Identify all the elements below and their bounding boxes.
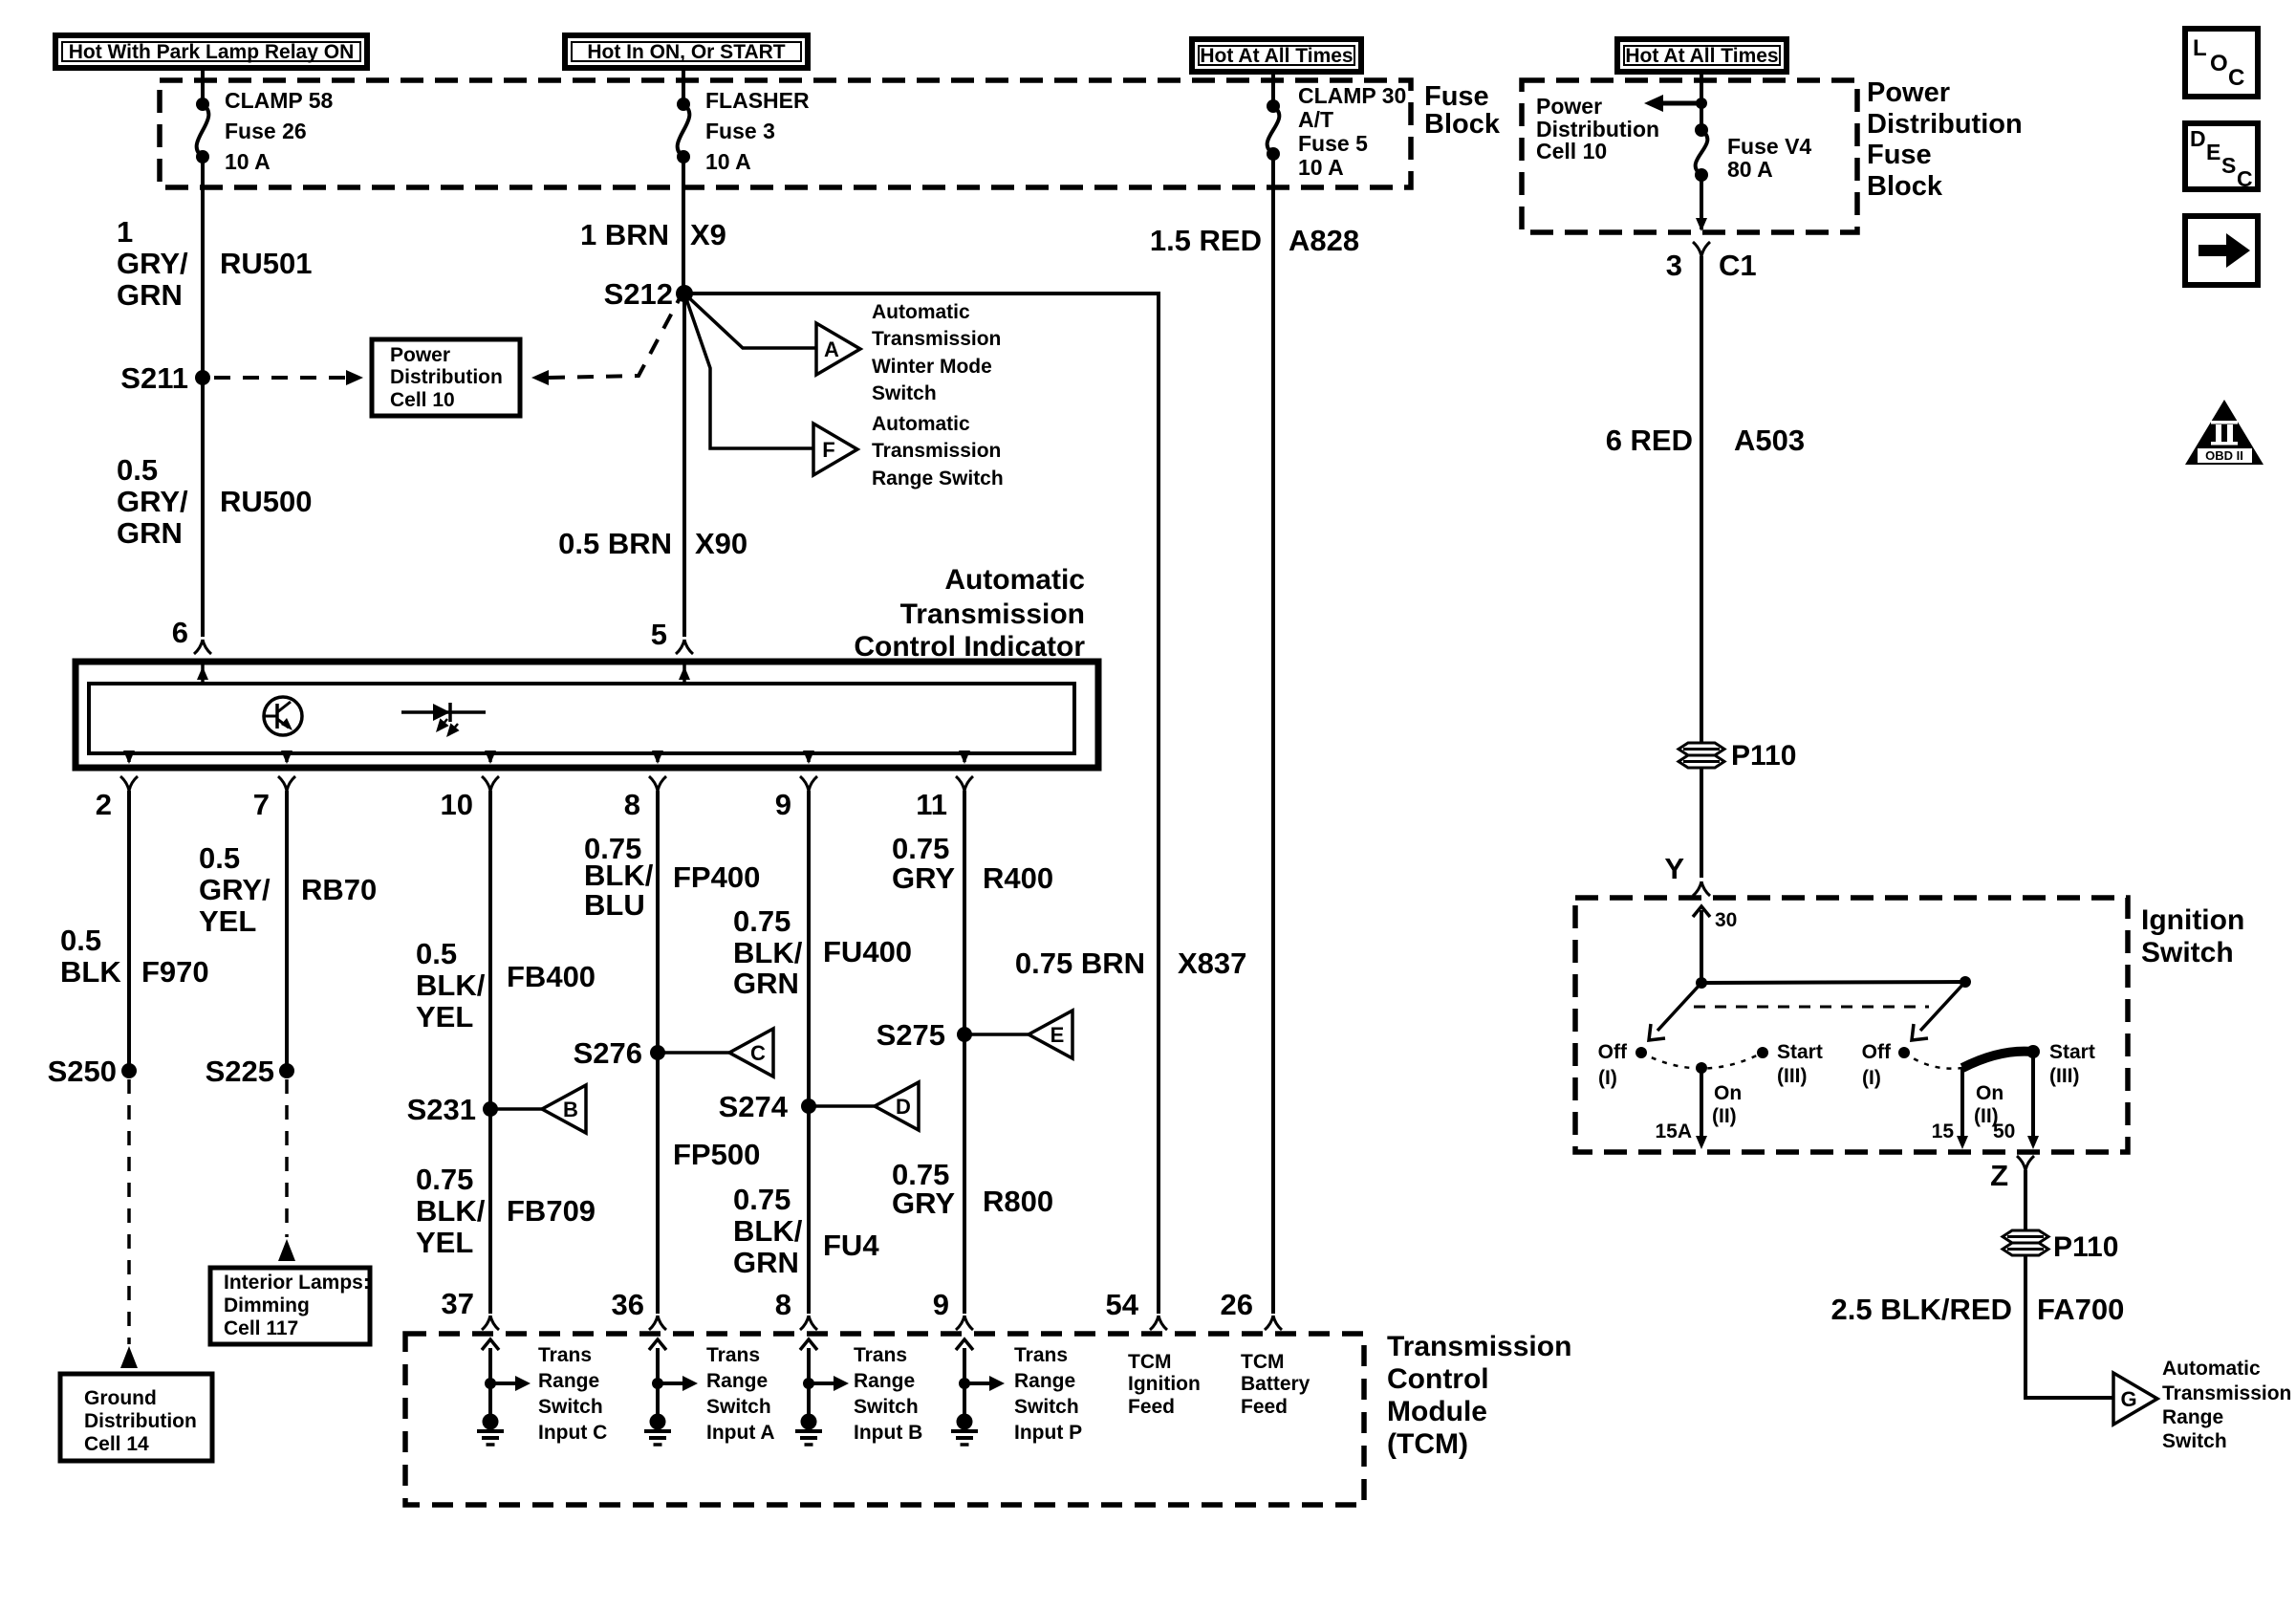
svg-text:(II): (II) [1712,1105,1737,1127]
wire: header into power dist block [1696,72,1707,130]
wire: fuse V4 down to C1 (arrow) [1696,175,1707,231]
wire label 0.5 BLK/YEL FB400 [416,937,596,1033]
pin 6 [172,616,211,654]
svg-text:Range: Range [854,1370,915,1392]
svg-text:Dimming: Dimming [224,1295,310,1316]
svg-text:Switch: Switch [1014,1396,1079,1418]
svg-text:GRY/: GRY/ [199,873,271,906]
fuse 3 (FLASHER, 10 A) [677,98,690,163]
svg-text:BLK/: BLK/ [733,936,803,969]
ground symbol (Input P) [951,1414,978,1446]
svg-text:FU400: FU400 [823,935,912,968]
triangle B [542,1085,586,1133]
TCM pin 9 [933,1288,973,1330]
svg-text:CLAMP 30: CLAMP 30 [1298,83,1406,108]
svg-text:15: 15 [1932,1120,1955,1142]
svg-text:BLK: BLK [60,955,121,989]
svg-text:P110: P110 [1731,740,1796,772]
svg-text:(I): (I) [1598,1067,1617,1089]
header box: Hot At All Times (power dist) [1617,39,1787,72]
svg-text:Trans: Trans [854,1344,907,1366]
svg-text:Fuse: Fuse [1424,81,1489,112]
inline connector P110 (A503) [1679,740,1796,772]
svg-text:X90: X90 [695,527,747,560]
svg-text:On: On [1976,1082,2004,1104]
svg-text:Block: Block [1867,171,1943,202]
pin 5 [651,618,693,654]
terminal 30 entry arrow [1693,906,1737,983]
wire label FP500 [673,1138,760,1171]
svg-text:A828: A828 [1289,224,1359,257]
svg-text:Transmission: Transmission [1387,1331,1571,1362]
svg-text:C: C [750,1041,766,1065]
fuse 26 (CLAMP 58, 10 A) [196,98,209,163]
svg-text:F970: F970 [141,955,209,989]
svg-text:Start: Start [2049,1041,2095,1063]
svg-text:YEL: YEL [416,1226,473,1259]
svg-text:9: 9 [933,1288,949,1321]
LOC icon box [2185,29,2258,97]
wire S276 to triangle C [658,1051,729,1055]
svg-text:10 A: 10 A [705,149,751,174]
svg-text:F: F [822,438,834,462]
svg-text:RU501: RU501 [220,247,313,280]
inline connector P110 (FA700) [2003,1230,2118,1263]
svg-text:Fuse: Fuse [1867,140,1932,170]
svg-text:GRY/: GRY/ [117,485,188,518]
svg-text:Automatic: Automatic [2162,1358,2261,1380]
wire A503 [1700,256,1703,743]
svg-text:FLASHER: FLASHER [705,88,810,113]
svg-text:L: L [2193,35,2207,61]
svg-text:S: S [2221,153,2236,178]
indicator inner box [89,684,1074,753]
fuse 3 value label [705,88,810,174]
wire: header to fuse 3 [682,68,685,104]
svg-text:Fuse V4: Fuse V4 [1727,134,1811,159]
indicator title [854,564,1085,663]
TCM pin 8 [775,1288,817,1330]
connector Y [1664,852,1710,896]
svg-text:0.75: 0.75 [733,1183,791,1216]
svg-text:P110: P110 [2053,1231,2118,1263]
svg-text:80 A: 80 A [1727,157,1773,182]
wire Z to P110 [2024,1170,2027,1230]
svg-text:0.75 BRN: 0.75 BRN [1015,946,1145,980]
wire S275 to triangle E [964,1033,1029,1036]
svg-text:R800: R800 [983,1185,1053,1218]
indicator bottom pin 9 [775,751,817,821]
svg-text:Switch: Switch [706,1396,771,1418]
svg-text:Switch: Switch [538,1396,603,1418]
svg-text:26: 26 [1221,1288,1253,1321]
fuse block (dashed) [160,80,1411,187]
svg-text:Y: Y [1664,852,1684,885]
svg-text:D: D [896,1095,911,1119]
svg-text:10: 10 [441,788,473,821]
svg-text:2: 2 [96,788,112,821]
fuse 26 value label [225,88,334,174]
svg-text:A503: A503 [1734,424,1805,457]
TCM label [1387,1331,1571,1460]
svg-text:Distribution: Distribution [84,1410,197,1432]
svg-text:Battery: Battery [1241,1373,1310,1395]
svg-text:Input A: Input A [706,1422,775,1444]
svg-text:5: 5 [651,618,667,651]
svg-text:0.5: 0.5 [416,937,457,970]
right-arrow icon box [2185,216,2258,285]
svg-text:(III): (III) [1777,1065,1808,1087]
svg-text:Range: Range [706,1370,768,1392]
LED indicator symbol [401,703,486,741]
indicator outer box [76,662,1098,768]
node S212 [604,277,693,311]
DESC icon box [2185,123,2258,191]
svg-text:Z: Z [1990,1159,2008,1192]
svg-text:Hot In ON, Or START: Hot In ON, Or START [587,41,785,63]
svg-text:Cell 10: Cell 10 [1536,139,1607,163]
svg-text:Transmission: Transmission [2162,1382,2291,1404]
power distribution fuse block (dashed) [1522,80,1857,232]
fuse V4 value label [1727,134,1811,182]
svg-text:1 BRN: 1 BRN [580,218,669,251]
svg-text:Interior Lamps:: Interior Lamps: [224,1272,370,1294]
power distribution fuse block label [1867,77,2023,202]
svg-text:Input P: Input P [1014,1422,1082,1444]
svg-text:FP400: FP400 [673,860,760,894]
svg-text:A/T: A/T [1298,107,1333,132]
right wiper arrow [1912,982,1965,1040]
svg-text:O: O [2210,51,2228,76]
TCM trans range switch Input P internals [956,1339,1005,1414]
triangle D [875,1082,919,1130]
wire X9 (fuse 3 to S212) [682,157,685,294]
svg-text:BLK/: BLK/ [416,968,486,1002]
node S231 [407,1093,498,1126]
svg-text:Ignition: Ignition [1128,1373,1201,1395]
switch common bus wire [1696,976,1971,989]
svg-text:Fuse 3: Fuse 3 [705,119,775,143]
right bank wiper blade (On-Start, thick) [1962,1052,2033,1068]
transistor symbol [264,697,302,735]
svg-text:Hot With Park Lamp Relay ON: Hot With Park Lamp Relay ON [69,41,355,63]
wire S212 to triangle F [684,294,813,448]
svg-text:Input B: Input B [854,1422,922,1444]
wire label 0.5 BLK F970 [60,924,209,989]
svg-text:Switch: Switch [872,382,937,404]
svg-text:S275: S275 [877,1018,945,1052]
node S276 [574,1036,665,1070]
svg-text:Distribution: Distribution [390,366,503,388]
svg-text:Range: Range [538,1370,599,1392]
wire label 2.5 BLK/RED FA700 [1831,1293,2125,1326]
TCM ignition feed label [1128,1351,1201,1418]
svg-text:6 RED: 6 RED [1606,424,1693,457]
header box: Hot In ON, Or START [565,35,808,68]
TCM trans range switch Input C internals [482,1339,531,1414]
svg-text:X9: X9 [690,218,726,251]
wire label 0.5 GRY/YEL RB70 [199,841,377,938]
svg-text:GRY: GRY [892,861,955,895]
triangle A (winter mode switch ref) [816,323,860,375]
node S225 [206,1055,294,1088]
indicator bottom pin 8 [624,751,666,821]
svg-text:GRN: GRN [117,278,183,312]
dashed reference arrow S212 to cell 10 box [531,298,680,385]
svg-text:BLK/: BLK/ [416,1194,486,1228]
node S250 [48,1055,137,1088]
svg-text:Hot At All Times: Hot At All Times [1625,45,1778,67]
triangle F (range switch ref) [813,424,857,475]
svg-text:A: A [824,337,839,361]
svg-text:GRY/: GRY/ [117,247,188,280]
svg-text:BLU: BLU [584,888,645,922]
svg-text:Hot At All Times: Hot At All Times [1200,45,1353,67]
wire FU400/FU4 (pin 9 to TCM pin 8) [807,791,811,1314]
wire label 0.75 BRN X837 [1015,946,1247,980]
triangle C [729,1029,773,1077]
wire S212 to TCM pin 54 [684,294,1159,1314]
svg-text:30: 30 [1715,909,1737,931]
svg-text:FP500: FP500 [673,1138,760,1171]
svg-text:S212: S212 [604,277,673,311]
svg-text:11: 11 [916,788,947,821]
wire label 0.75 GRY R800 [892,1158,1053,1220]
svg-text:Fuse 26: Fuse 26 [225,119,307,143]
svg-text:On: On [1714,1082,1742,1104]
wire: header to fuse 26 [201,68,205,104]
svg-text:Transmission: Transmission [900,598,1085,630]
triangle E [1029,1011,1072,1058]
svg-text:Block: Block [1424,109,1501,140]
svg-text:S211: S211 [120,361,188,395]
svg-text:RU500: RU500 [220,485,313,518]
svg-text:Automatic: Automatic [944,564,1085,596]
svg-text:Power: Power [390,344,450,366]
svg-text:Trans: Trans [538,1344,592,1366]
power distribution cell 10 reference box [372,339,520,416]
svg-text:FU4: FU4 [823,1229,879,1262]
svg-text:TCM: TCM [1241,1351,1285,1373]
wire label 0.75 BLK/YEL FB709 [416,1163,596,1259]
ground symbol (Input B) [795,1414,822,1446]
TCM battery feed label [1241,1351,1310,1418]
svg-text:Ground: Ground [84,1387,157,1409]
svg-text:0.75: 0.75 [733,904,791,938]
svg-text:OBD II: OBD II [2205,448,2243,463]
svg-text:E: E [1051,1023,1065,1047]
wire S231 to triangle B [490,1107,542,1111]
wire label 0.75 GRY R400 [892,832,1053,895]
svg-text:1: 1 [117,215,133,249]
svg-text:RB70: RB70 [301,873,377,906]
dashed wire S225 to interior lamps ref [285,1079,289,1237]
svg-text:YEL: YEL [199,904,256,938]
svg-text:Power: Power [1867,77,1950,108]
svg-text:Feed: Feed [1241,1396,1288,1418]
triangle A label [872,301,1001,404]
svg-text:(I): (I) [1862,1067,1881,1089]
svg-text:0.75: 0.75 [416,1163,473,1196]
dashed wire S250 to ground ref [127,1079,131,1344]
svg-text:C1: C1 [1719,249,1757,282]
left wiper arrow [1649,983,1701,1040]
wire F970 (pin 2 to S250) [127,791,131,1071]
wire FP400/FP500 (pin 8 to TCM pin 36) [656,791,660,1314]
svg-text:10 A: 10 A [225,149,271,174]
wire label 0.5 BRN X90 [558,527,747,560]
svg-text:Transmission: Transmission [872,440,1001,462]
svg-text:Winter Mode: Winter Mode [872,356,992,378]
svg-text:GRY: GRY [892,1186,955,1220]
svg-text:GRN: GRN [117,516,183,550]
svg-text:CLAMP 58: CLAMP 58 [225,88,334,113]
svg-text:Switch: Switch [2141,937,2234,968]
svg-text:54: 54 [1106,1288,1139,1321]
triangle F label [872,413,1004,490]
wire S212 to triangle A [684,294,816,348]
arrow to power distribution cell 10 [1644,95,1701,112]
svg-text:E: E [2206,140,2220,164]
svg-text:Cell 10: Cell 10 [390,389,455,411]
right bank output 50 [1993,1052,2039,1149]
svg-text:Fuse 5: Fuse 5 [1298,131,1368,156]
wire label 0.75 BLK/GRN FU400 [733,904,912,1000]
indicator bottom pin 7 [253,751,295,821]
triangle G label [2162,1358,2291,1452]
svg-text:1.5 RED: 1.5 RED [1150,224,1262,257]
header box: Hot With Park Lamp Relay ON [55,35,367,68]
ignition switch (dashed box) [1575,898,2128,1152]
svg-text:FA700: FA700 [2037,1293,2124,1326]
svg-text:Range Switch: Range Switch [872,468,1004,490]
svg-text:Off: Off [1598,1041,1628,1063]
svg-text:Automatic: Automatic [872,413,970,435]
node S274 [719,1090,816,1123]
svg-text:Range: Range [1014,1370,1075,1392]
indicator bottom pin 10 [441,751,499,821]
TCM trans range switch Input A internals [649,1339,698,1414]
svg-text:Switch: Switch [854,1396,919,1418]
svg-text:3: 3 [1666,249,1682,282]
svg-text:Cell 117: Cell 117 [224,1317,298,1339]
ground symbol (Input C) [477,1414,504,1446]
left bank On contact [1696,1062,1742,1127]
svg-text:BLK/: BLK/ [584,859,654,892]
svg-text:Control Indicator: Control Indicator [854,631,1085,663]
svg-text:Start: Start [1777,1041,1823,1063]
svg-text:S231: S231 [407,1093,476,1126]
svg-text:GRN: GRN [733,967,799,1000]
pin 6 entry arrow [197,664,208,684]
svg-text:Distribution: Distribution [1867,109,2023,140]
svg-text:0.5: 0.5 [60,924,101,957]
OBD II icon [2185,400,2264,465]
wire FA700 to triangle G [2025,1255,2113,1398]
indicator bottom pin 2 [96,751,138,821]
svg-text:(III): (III) [2049,1065,2080,1087]
svg-text:Transmission: Transmission [872,328,1001,350]
wire P110 to ignition switch [1700,768,1703,878]
TCM label trans range switch Input P [1014,1344,1082,1444]
svg-text:B: B [563,1098,578,1121]
svg-text:(TCM): (TCM) [1387,1428,1468,1460]
fuse 5 (CLAMP 30 A/T, 10 A) [1267,99,1280,161]
mechanical link (dashed) [1694,1006,1929,1009]
right bank On label [1974,1082,2004,1127]
svg-text:Trans: Trans [706,1344,760,1366]
right bank rotation arc (dotted) [1904,1053,1962,1069]
wire label 1 GRY/GRN RU501 [117,215,313,312]
node S275 [877,1018,972,1052]
connector Z [1990,1156,2034,1192]
wire RU501/RU500 (fuse 26 to indicator pin 6) [201,157,205,637]
svg-text:7: 7 [253,788,270,821]
svg-text:6: 6 [172,616,188,649]
svg-text:Feed: Feed [1128,1396,1175,1418]
wire: header to fuse 5 [1271,72,1275,106]
svg-text:Automatic: Automatic [872,301,970,323]
wire A828 (fuse 5 to TCM pin 26) [1271,154,1275,1314]
svg-text:Control: Control [1387,1363,1489,1395]
svg-text:YEL: YEL [416,1000,473,1033]
svg-text:S225: S225 [206,1055,274,1088]
svg-text:GRN: GRN [733,1246,799,1279]
dashed reference arrow S211 to cell 10 box [214,370,363,385]
wire label 1.5 RED A828 [1150,224,1359,257]
power distribution cell 10 text [1536,94,1659,163]
TCM trans range switch Input B internals [800,1339,849,1414]
svg-text:R400: R400 [983,861,1053,895]
svg-text:BLK/: BLK/ [733,1214,803,1248]
svg-text:C: C [2228,65,2244,91]
svg-text:Trans: Trans [1014,1344,1068,1366]
wire label 0.75 BLK/GRN FU4 [733,1183,879,1279]
svg-text:0.5 BRN: 0.5 BRN [558,527,672,560]
right bank Start contact [2026,1041,2095,1087]
ground distribution cell 14 reference box [60,1374,212,1461]
TCM pin 37 [442,1287,499,1330]
TCM label trans range switch Input C [538,1344,607,1444]
svg-text:FB400: FB400 [507,960,596,993]
indicator bottom pin 11 [916,751,973,821]
node S211 [120,361,210,395]
svg-text:50: 50 [1993,1120,2015,1142]
off-page triangle (interior lamps) [278,1239,295,1261]
TCM pin 36 [612,1288,666,1330]
svg-text:15A: 15A [1655,1120,1692,1142]
left bank Off contact [1598,1041,1647,1089]
right bank output 15 [1932,1068,1968,1149]
svg-text:S250: S250 [48,1055,117,1088]
ignition switch label [2141,904,2244,968]
svg-text:X837: X837 [1178,946,1246,980]
pin 5 entry arrow [679,664,690,684]
svg-text:TCM: TCM [1128,1351,1172,1373]
svg-text:9: 9 [775,788,791,821]
triangle G (range switch ref) [2113,1373,2157,1425]
fuse 5 value label [1298,83,1406,180]
right bank Off contact [1862,1041,1910,1089]
svg-text:Module: Module [1387,1396,1487,1427]
wire label 0.5 GRY/GRN RU500 [117,453,313,550]
ground symbol (Input A) [644,1414,671,1446]
fuse V4 (80 A) [1695,123,1708,182]
left bank output 15A [1655,1068,1707,1149]
off-page triangle (ground cell) [120,1346,138,1368]
TCM label trans range switch Input A [706,1344,775,1444]
svg-text:S274: S274 [719,1090,789,1123]
